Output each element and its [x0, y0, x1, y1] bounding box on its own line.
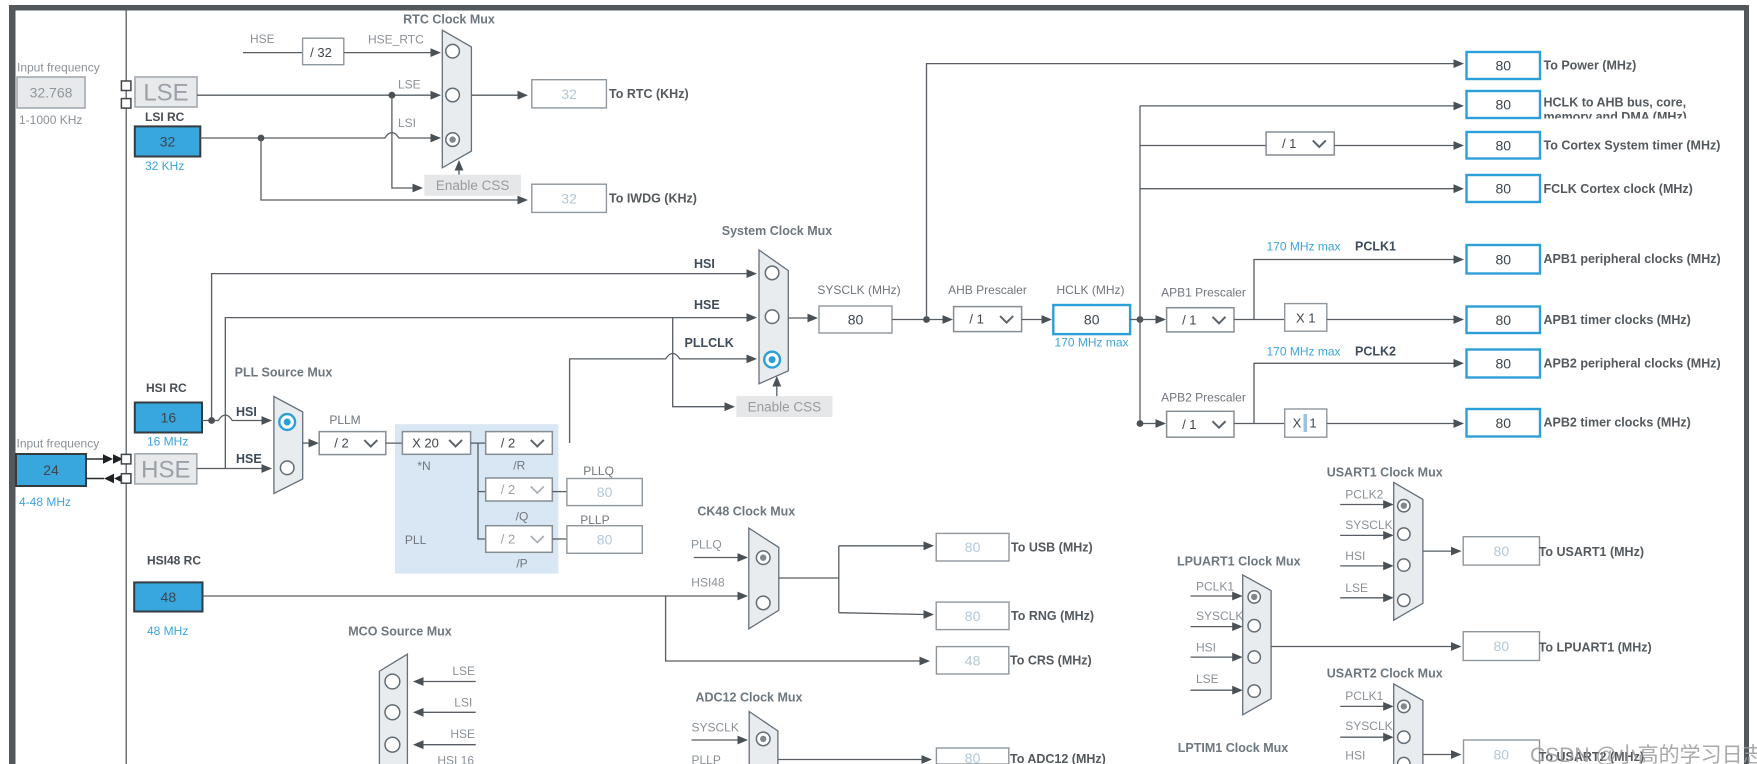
svg-text:*N: *N: [417, 459, 430, 473]
CK48 Clock Mux title: [697, 505, 795, 519]
svg-text:HSE: HSE: [250, 32, 275, 46]
wire N to R and Q P taps: [471, 443, 486, 539]
label HSI48 (CK48): [691, 576, 725, 590]
PLLQ value box: [567, 479, 642, 506]
svg-text:USART1 Clock Mux: USART1 Clock Mux: [1327, 466, 1443, 480]
AHB prescaler dropdown /1: [954, 307, 1022, 332]
wire HSE to system mux: [225, 313, 757, 468]
wire SYSCLK to To Power: [927, 59, 1465, 319]
label 4-48 MHz: [19, 495, 71, 509]
svg-text:To Cortex System timer (MHz): To Cortex System timer (MHz): [1544, 139, 1721, 153]
label To USART2 (MHz): [1539, 750, 1644, 764]
svg-text:48: 48: [965, 652, 981, 668]
svg-text:/ 2: / 2: [501, 532, 515, 547]
label PLL: [405, 533, 427, 547]
label 170 MHz max (PCLK1): [1266, 240, 1340, 254]
svg-text:80: 80: [597, 532, 613, 548]
wire USART1 mux to box: [1423, 547, 1462, 556]
svg-text:HSE_RTC: HSE_RTC: [368, 33, 424, 47]
port square LSE a: [121, 81, 130, 91]
svg-text:80: 80: [1495, 312, 1511, 328]
PLL Q divider dropdown /2: [486, 478, 553, 501]
CK48 mux radio PLLQ selected: [756, 551, 770, 565]
svg-text:32 KHz: 32 KHz: [145, 159, 184, 173]
LSE input frequency box 32.768: [17, 77, 85, 108]
label HCLK to AHB (2 lines, clipped): [1544, 96, 1687, 125]
svg-text:X 20: X 20: [412, 436, 439, 451]
wire HSE to PLL mux: [197, 464, 272, 473]
svg-text:Enable CSS: Enable CSS: [748, 399, 822, 414]
HSE oscillator box: [135, 454, 197, 484]
USART2 clock mux body: [1394, 684, 1423, 764]
label To RTC (KHz): [609, 87, 689, 101]
svg-text:LSE: LSE: [1196, 672, 1219, 686]
wire APB1 to X1 and PCLK1: [1234, 255, 1464, 319]
label /P: [516, 557, 527, 571]
wire LSI stub to MCO mux: [413, 708, 476, 717]
PLL mux radio HSI selected: [279, 414, 295, 430]
svg-text:32.768: 32.768: [30, 85, 73, 101]
wire CK48 mux to USB RNG: [779, 541, 934, 619]
svg-text:80: 80: [1495, 97, 1511, 113]
svg-text:To USB (MHz): To USB (MHz): [1011, 541, 1093, 555]
svg-text:PLLP: PLLP: [580, 513, 609, 527]
svg-text:To LPUART1 (MHz): To LPUART1 (MHz): [1539, 641, 1652, 655]
svg-text:80: 80: [848, 312, 864, 328]
label HSI (sys): [694, 257, 715, 271]
system mux radio HSE: [765, 310, 779, 324]
arrow Enable CSS to RTC mux: [455, 160, 464, 175]
label PCLK1 (LPUART1): [1196, 580, 1234, 594]
svg-text:APB1 Prescaler: APB1 Prescaler: [1161, 286, 1246, 300]
LSE oscillator box: [135, 77, 197, 107]
svg-text:80: 80: [1494, 543, 1510, 559]
wire rail to FCLK box: [1140, 184, 1464, 193]
page frame right border: [1744, 5, 1749, 764]
wire ADC12 mux to ADC12 box: [778, 755, 932, 764]
wire P to PLLP box: [552, 538, 567, 540]
FCLK value box: [1467, 175, 1541, 202]
label APB1 peripheral clocks (MHz): [1544, 252, 1721, 266]
HCLK AHB value box: [1467, 91, 1541, 118]
svg-text:80: 80: [1495, 58, 1511, 74]
label FCLK Cortex clock (MHz): [1544, 182, 1693, 196]
To ADC12 value box: [936, 748, 1008, 764]
wire PCLK1 stub to LPUART1 mux: [1191, 592, 1243, 601]
label PCLK1: [1355, 240, 1396, 254]
svg-text:To RTC (KHz): To RTC (KHz): [609, 87, 689, 101]
label HSE (sys): [694, 298, 720, 312]
svg-text:PCLK2: PCLK2: [1345, 488, 1383, 502]
svg-text:80: 80: [1495, 137, 1511, 153]
svg-text:PLLQ: PLLQ: [691, 538, 722, 552]
svg-text:SYSCLK: SYSCLK: [1345, 518, 1392, 532]
svg-text:PLL: PLL: [405, 533, 427, 547]
label Input frequency (HSE): [17, 437, 100, 451]
wire LSE stub to LPUART1 mux: [1191, 686, 1243, 695]
label LSI RC: [145, 110, 185, 124]
label HSE_RTC: [368, 33, 424, 47]
system clock mux body: [759, 250, 788, 384]
svg-text:32: 32: [160, 133, 176, 149]
APB1 timer multiplier box X1: [1285, 304, 1327, 332]
ADC12 mux radio SYSCLK selected: [756, 732, 770, 746]
svg-text:PCLK1: PCLK1: [1345, 689, 1383, 703]
input rail line: [125, 11, 127, 764]
CSDN watermark: [1530, 744, 1757, 764]
svg-text:SYSCLK: SYSCLK: [1196, 609, 1243, 623]
ADC12 Clock Mux title: [696, 691, 803, 705]
label PLLQ: [583, 464, 614, 478]
label To Power (MHz): [1544, 59, 1637, 73]
PLLM divider dropdown /2: [319, 432, 386, 455]
wire HSE to div32: [243, 52, 303, 54]
svg-text:80: 80: [1495, 356, 1511, 372]
svg-text:HSI: HSI: [1196, 641, 1216, 655]
label PLLP: [580, 513, 609, 527]
label To ADC12 (MHz): [1010, 752, 1106, 764]
HCLK value box: [1053, 305, 1130, 334]
APB2 peripheral value box: [1467, 350, 1541, 378]
label To RNG (MHz): [1011, 609, 1094, 623]
svg-text:80: 80: [965, 608, 981, 624]
port square HSE b: [121, 474, 130, 484]
LSI RC value box 32: [135, 126, 201, 156]
svg-text:LSI RC: LSI RC: [145, 110, 185, 124]
wire SYSCLK to AHB prescaler: [892, 315, 953, 324]
label PCLK2: [1355, 345, 1396, 359]
svg-text:ADC12 Clock Mux: ADC12 Clock Mux: [696, 691, 803, 705]
label SYSCLK (LPUART1): [1196, 609, 1243, 623]
label PCLK2 (USART1): [1345, 488, 1383, 502]
svg-text:170 MHz max: 170 MHz max: [1266, 345, 1340, 359]
USART1 mux radio PCLK2 selected: [1398, 500, 1410, 512]
svg-text:LSE: LSE: [1345, 581, 1368, 595]
port square HSE a: [121, 454, 130, 464]
USART1 Clock Mux title: [1327, 466, 1443, 480]
svg-text:Enable CSS: Enable CSS: [436, 178, 510, 193]
svg-text:LSI: LSI: [398, 116, 416, 130]
port square LSE b: [121, 99, 130, 109]
APB2 prescaler dropdown /1: [1167, 411, 1234, 437]
svg-text:CK48 Clock Mux: CK48 Clock Mux: [697, 505, 795, 519]
APB2 timer value box: [1467, 409, 1541, 437]
wire HSI48 to CK48 mux: [203, 592, 749, 601]
svg-text:PCLK1: PCLK1: [1355, 240, 1396, 254]
svg-text:24: 24: [43, 462, 59, 478]
To LPUART1 value box: [1463, 632, 1539, 661]
svg-text:X 1: X 1: [1296, 310, 1316, 325]
label APB1 timer clocks (MHz): [1544, 313, 1691, 327]
label 32 KHz: [145, 159, 184, 173]
svg-text:USART2 Clock Mux: USART2 Clock Mux: [1327, 667, 1443, 681]
svg-text:/ 1: / 1: [1182, 417, 1196, 432]
svg-text:APB2 peripheral clocks (MHz): APB2 peripheral clocks (MHz): [1544, 357, 1721, 371]
ADC12 clock mux body: [749, 712, 778, 764]
label To LPUART1 (MHz): [1539, 641, 1652, 655]
svg-text:170 MHz max: 170 MHz max: [1266, 240, 1340, 254]
svg-text:/ 1: / 1: [1182, 312, 1196, 327]
LPUART1 mux radio PCLK1 selected: [1248, 591, 1260, 603]
LPUART1 clock mux body: [1243, 575, 1271, 715]
svg-text:80: 80: [1495, 415, 1511, 431]
label LSE (MCO): [452, 664, 475, 678]
svg-text:To Power (MHz): To Power (MHz): [1544, 59, 1637, 73]
SYSCLK value box: [819, 306, 892, 333]
USART2 Clock Mux title: [1327, 667, 1443, 681]
svg-text:HSI: HSI: [236, 405, 257, 419]
svg-text:48: 48: [161, 589, 177, 605]
Enable CSS button (system): [736, 396, 832, 417]
To USB value box: [936, 533, 1009, 561]
svg-text:1-1000 KHz: 1-1000 KHz: [19, 113, 82, 127]
wire X1 to APB2 timer box: [1327, 419, 1464, 428]
label APB2 Prescaler: [1161, 391, 1246, 405]
wire HSI to PLL mux: [202, 415, 272, 425]
svg-text:PCLK2: PCLK2: [1355, 345, 1396, 359]
wire PLLM to N: [386, 442, 403, 444]
svg-text:HSE: HSE: [450, 727, 475, 741]
To IWDG value box: [532, 184, 607, 212]
svg-text:170 MHz max: 170 MHz max: [1054, 336, 1128, 350]
svg-text:LSE: LSE: [452, 664, 475, 678]
PLL multiplier dropdown X20: [402, 432, 470, 455]
label 170 MHz max (PCLK2): [1266, 345, 1340, 359]
svg-text:80: 80: [1495, 251, 1511, 267]
svg-text:32: 32: [561, 190, 577, 206]
label To USB (MHz): [1011, 541, 1093, 555]
label LSE (RTC): [398, 78, 421, 92]
svg-text:HSE: HSE: [141, 457, 190, 484]
HSE RTC divider box /32: [303, 38, 344, 64]
svg-text:LPTIM1 Clock Mux: LPTIM1 Clock Mux: [1178, 741, 1288, 755]
svg-text:MCO Source Mux: MCO Source Mux: [348, 625, 452, 639]
svg-text:/R: /R: [513, 459, 525, 473]
PLL source mux body: [274, 397, 303, 494]
svg-text:LSI: LSI: [454, 696, 472, 710]
label PLLCLK: [685, 336, 734, 350]
wire cortex divider to box: [1334, 141, 1464, 150]
To RTC value box: [532, 80, 607, 108]
wire SYSCLK stub to USART2 mux: [1340, 733, 1394, 742]
svg-text:memory and DMA (MHz): memory and DMA (MHz): [1544, 110, 1687, 124]
label To Cortex System timer (MHz): [1544, 139, 1721, 153]
svg-text:32: 32: [561, 86, 577, 102]
svg-text:80: 80: [965, 750, 981, 764]
To RNG value box: [936, 602, 1009, 630]
Enable CSS button (RTC): [424, 175, 521, 196]
wire Q to PLLQ box: [552, 491, 567, 493]
svg-text:PLLM: PLLM: [329, 413, 360, 427]
CK48 mux radio HSI48: [756, 596, 770, 610]
svg-text:Input frequency: Input frequency: [17, 437, 100, 451]
LPUART1 mux radio LSE: [1248, 685, 1260, 697]
svg-text:Input frequency: Input frequency: [17, 61, 100, 75]
svg-text:RTC Clock Mux: RTC Clock Mux: [403, 13, 495, 27]
wire LSE to Enable CSS: [392, 95, 423, 192]
svg-text:To ADC12 (MHz): To ADC12 (MHz): [1010, 752, 1106, 764]
MCO mux radio LSI: [385, 705, 400, 720]
svg-text:PLLCLK: PLLCLK: [685, 336, 734, 350]
label PLLP (ADC12): [692, 753, 721, 764]
svg-text:HSI 16: HSI 16: [437, 754, 474, 764]
wire LSE stub to USART1 mux: [1340, 593, 1394, 602]
svg-text:80: 80: [1084, 312, 1100, 328]
label LSI (RTC): [398, 116, 416, 130]
wire HSI stub to USART1 mux: [1340, 562, 1394, 571]
label HSI 16 (MCO, clipped): [437, 754, 474, 764]
wire LSE to RTC mux: [197, 91, 441, 100]
svg-text:HSI48 RC: HSI48 RC: [147, 554, 201, 568]
System Clock Mux title: [722, 224, 833, 238]
label HSE (MCO): [450, 727, 475, 741]
LPTIM1 Clock Mux title: [1178, 741, 1288, 755]
To USART1 value box: [1463, 537, 1539, 565]
svg-text:HSI: HSI: [1345, 749, 1365, 763]
RTC mux radio LSI selected: [446, 133, 460, 147]
wire LPUART1 mux to box: [1271, 642, 1461, 651]
label SYSCLK (USART1): [1345, 518, 1392, 532]
LPUART1 Clock Mux title: [1177, 555, 1301, 569]
svg-text:PLLQ: PLLQ: [583, 464, 614, 478]
svg-text:HSI: HSI: [694, 257, 715, 271]
svg-text:To CRS (MHz): To CRS (MHz): [1010, 654, 1092, 668]
system mux radio HSI: [765, 266, 779, 280]
RTC Clock Mux title: [403, 13, 495, 27]
svg-text:APB1 timer clocks (MHz): APB1 timer clocks (MHz): [1544, 313, 1691, 327]
svg-text:HCLK to AHB bus, core,: HCLK to AHB bus, core,: [1544, 96, 1687, 110]
svg-text:/ 32: / 32: [310, 45, 332, 60]
svg-text:48 MHz: 48 MHz: [147, 624, 188, 638]
wire rail to HCLK AHB box: [1140, 102, 1464, 111]
svg-text:LSE: LSE: [398, 78, 421, 92]
svg-text:PLL Source Mux: PLL Source Mux: [235, 366, 333, 380]
svg-text:SYSCLK: SYSCLK: [1345, 719, 1392, 733]
wire PCLK1 stub to USART2 mux: [1340, 702, 1394, 711]
svg-text:X: X: [1293, 416, 1302, 431]
wire PLLQ stub to CK48 mux: [694, 553, 748, 562]
page frame top border: [9, 5, 1749, 11]
svg-text:/Q: /Q: [516, 510, 529, 524]
label HSE (PLL): [236, 452, 262, 466]
wire RTC mux to RTC box: [471, 91, 528, 100]
PLL multiplier panel: [395, 424, 558, 573]
svg-text:LSE: LSE: [143, 80, 188, 107]
svg-text:HSI RC: HSI RC: [146, 381, 187, 395]
label PCLK1 (USART2): [1345, 689, 1383, 703]
label SYSCLK (USART2): [1345, 719, 1392, 733]
wire PLL mux to PLLM: [303, 439, 319, 448]
double arrow right into HSE: [103, 454, 123, 464]
label To IWDG (KHz): [609, 192, 697, 206]
svg-text:16 MHz: 16 MHz: [147, 435, 188, 449]
USART2 mux radio PCLK1 selected: [1398, 700, 1410, 712]
svg-text:HCLK (MHz): HCLK (MHz): [1057, 283, 1125, 297]
label 16 MHz: [147, 435, 188, 449]
HSI48 RC value box 48: [134, 582, 202, 611]
svg-text:80: 80: [1494, 747, 1510, 763]
label HCLK (MHz): [1057, 283, 1125, 297]
svg-text:/ 2: / 2: [501, 436, 515, 451]
svg-text:LPUART1 Clock Mux: LPUART1 Clock Mux: [1177, 555, 1301, 569]
label To USART1 (MHz): [1539, 545, 1644, 559]
svg-text:HSI48: HSI48: [691, 576, 725, 590]
wire rail to cortex divider: [1140, 145, 1266, 147]
wire box24 to arrows top: [86, 458, 104, 460]
APB2 timer multiplier input X1 with cursor: [1285, 409, 1327, 437]
wire HSI to system mux: [212, 269, 757, 420]
PLL R divider dropdown /2: [486, 432, 553, 455]
svg-text:PCLK1: PCLK1: [1196, 580, 1234, 594]
PLL Source Mux title: [235, 366, 333, 380]
wire div32 to RTC mux: [344, 48, 441, 57]
label HSI (LPUART1): [1196, 641, 1216, 655]
label APB2 peripheral clocks (MHz): [1544, 357, 1721, 371]
label APB2 timer clocks (MHz): [1544, 416, 1691, 430]
label To CRS (MHz): [1010, 654, 1092, 668]
label *N: [417, 459, 430, 473]
wire HSE to Enable CSS (system): [673, 318, 735, 412]
wire HCLK to rail: [1130, 316, 1143, 323]
svg-text:80: 80: [1495, 181, 1511, 197]
MCO source mux body: [379, 654, 407, 764]
label 1-1000 KHz: [19, 113, 82, 127]
USART1 mux radio SYSCLK: [1398, 528, 1410, 540]
svg-text:/P: /P: [516, 557, 527, 571]
To USART2 value box: [1464, 740, 1540, 764]
svg-text:CSDN @小高的学习日志: CSDN @小高的学习日志: [1530, 744, 1757, 764]
wire PLLCLK to system mux: [570, 353, 757, 443]
svg-text:80: 80: [1494, 638, 1510, 654]
PLL P divider dropdown /2: [486, 526, 553, 553]
svg-text:System Clock Mux: System Clock Mux: [722, 224, 833, 238]
wire SYSCLK stub to ADC12 mux: [692, 736, 749, 745]
wire HSE stub to MCO mux: [413, 740, 476, 749]
MCO mux radio LSE: [385, 674, 400, 689]
Cortex timer value box: [1467, 132, 1541, 159]
wire APB2 to X1 and PCLK2: [1234, 359, 1464, 424]
svg-text:HSE: HSE: [236, 452, 262, 466]
wire box24 to arrows bottom: [86, 478, 104, 480]
USART2 mux radio SYSCLK: [1398, 731, 1410, 743]
wire USART2 mux to box: [1423, 750, 1462, 759]
svg-text:To IWDG (KHz): To IWDG (KHz): [609, 192, 697, 206]
label 170 MHz max (HCLK): [1054, 336, 1128, 350]
double arrow left from HSE: [104, 474, 124, 484]
USART1 mux radio HSI: [1398, 559, 1410, 571]
wire rail to APB2 prescaler: [1137, 419, 1166, 428]
svg-text:4-48 MHz: 4-48 MHz: [19, 495, 71, 509]
label HSE (RTC): [250, 32, 275, 46]
label /Q: [516, 510, 529, 524]
svg-text:/ 2: / 2: [501, 482, 515, 497]
To Power value box: [1467, 52, 1541, 79]
svg-text:HSI: HSI: [1345, 549, 1365, 563]
label Input frequency (LSE): [17, 61, 100, 75]
label HSI48 RC: [147, 554, 201, 568]
CK48 clock mux body: [749, 528, 779, 629]
HCLK distribution rail: [1139, 106, 1141, 424]
wire rail to APB1 prescaler: [1140, 315, 1166, 324]
svg-text:/ 2: / 2: [334, 436, 348, 451]
MCO Source Mux title: [348, 625, 452, 639]
label SYSCLK (ADC12): [692, 721, 739, 735]
label AHB Prescaler: [948, 283, 1027, 297]
label 48 MHz: [147, 624, 188, 638]
HSI RC value box 16: [135, 403, 202, 433]
label LSI (MCO): [454, 696, 472, 710]
label HSI (USART1): [1345, 549, 1365, 563]
